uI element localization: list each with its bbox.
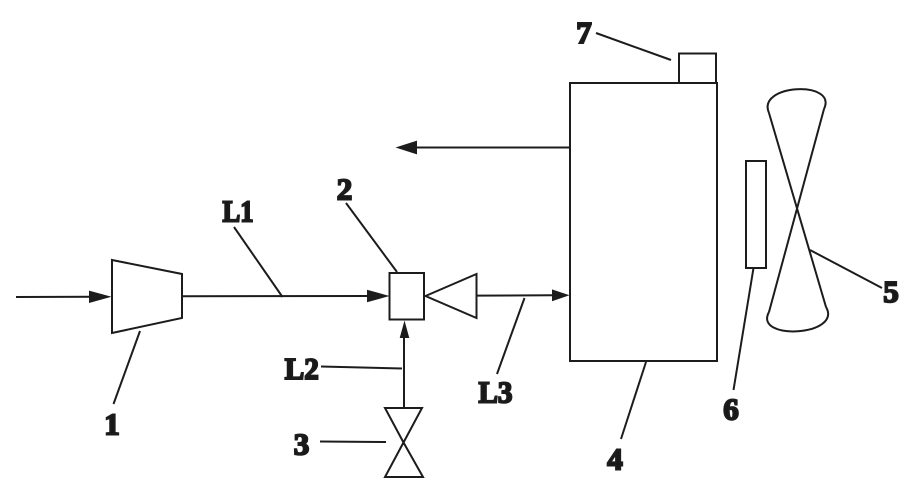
svg-text:3: 3 xyxy=(294,427,310,462)
wire L1 from compressor to mixer 2 xyxy=(182,295,370,297)
arrowhead into furnace 4 xyxy=(552,289,570,301)
svg-text:L3: L3 xyxy=(479,375,513,410)
leader line from label 7 to sensor xyxy=(596,33,671,60)
compressor 1 (trapezoid) xyxy=(112,260,182,333)
leader line from label 3 to valve xyxy=(320,441,386,444)
heater 6 (narrow vertical rectangle) xyxy=(746,161,766,268)
leader line from label 6 to heater xyxy=(734,268,754,390)
svg-text:7: 7 xyxy=(576,15,592,50)
leader line from label 2 to mixer xyxy=(346,203,397,272)
svg-text:L2: L2 xyxy=(285,351,319,386)
leader line from label 4 to furnace xyxy=(621,362,646,439)
furnace 4 (large rectangle) xyxy=(570,83,717,361)
arrowhead into compressor xyxy=(89,291,112,303)
mixer 2 (small square) xyxy=(390,273,425,320)
wire L2 vertical fuel line xyxy=(403,336,405,408)
nozzle (triangle) xyxy=(426,274,477,318)
fan 5 (hourglass with elliptical caps) xyxy=(767,89,828,331)
svg-text:2: 2 xyxy=(337,172,353,207)
sensor 7 (small rectangle on top) xyxy=(679,54,716,84)
leader line from L3 label to wire xyxy=(497,298,525,374)
wire L3 from nozzle to furnace 4 xyxy=(477,294,553,296)
wire exhaust out of furnace xyxy=(414,147,570,149)
leader line from label 5 to fan xyxy=(810,250,882,288)
wire input line into compressor xyxy=(16,296,93,298)
valve 3 (bowtie) xyxy=(385,408,422,443)
svg-text:L1: L1 xyxy=(223,194,254,229)
leader line to label 1 xyxy=(114,331,141,404)
leader line from L2 label to fuel line xyxy=(321,367,402,369)
svg-text:5: 5 xyxy=(883,274,899,309)
leader line from L1 label to wire xyxy=(234,227,283,297)
arrowhead into mixer 2 xyxy=(367,290,390,302)
arrowhead up into mixer 2 xyxy=(400,321,410,339)
svg-text:4: 4 xyxy=(607,442,623,477)
svg-text:6: 6 xyxy=(723,392,739,427)
svg-text:1: 1 xyxy=(104,407,120,442)
arrowhead exhaust pointing left xyxy=(396,141,418,155)
